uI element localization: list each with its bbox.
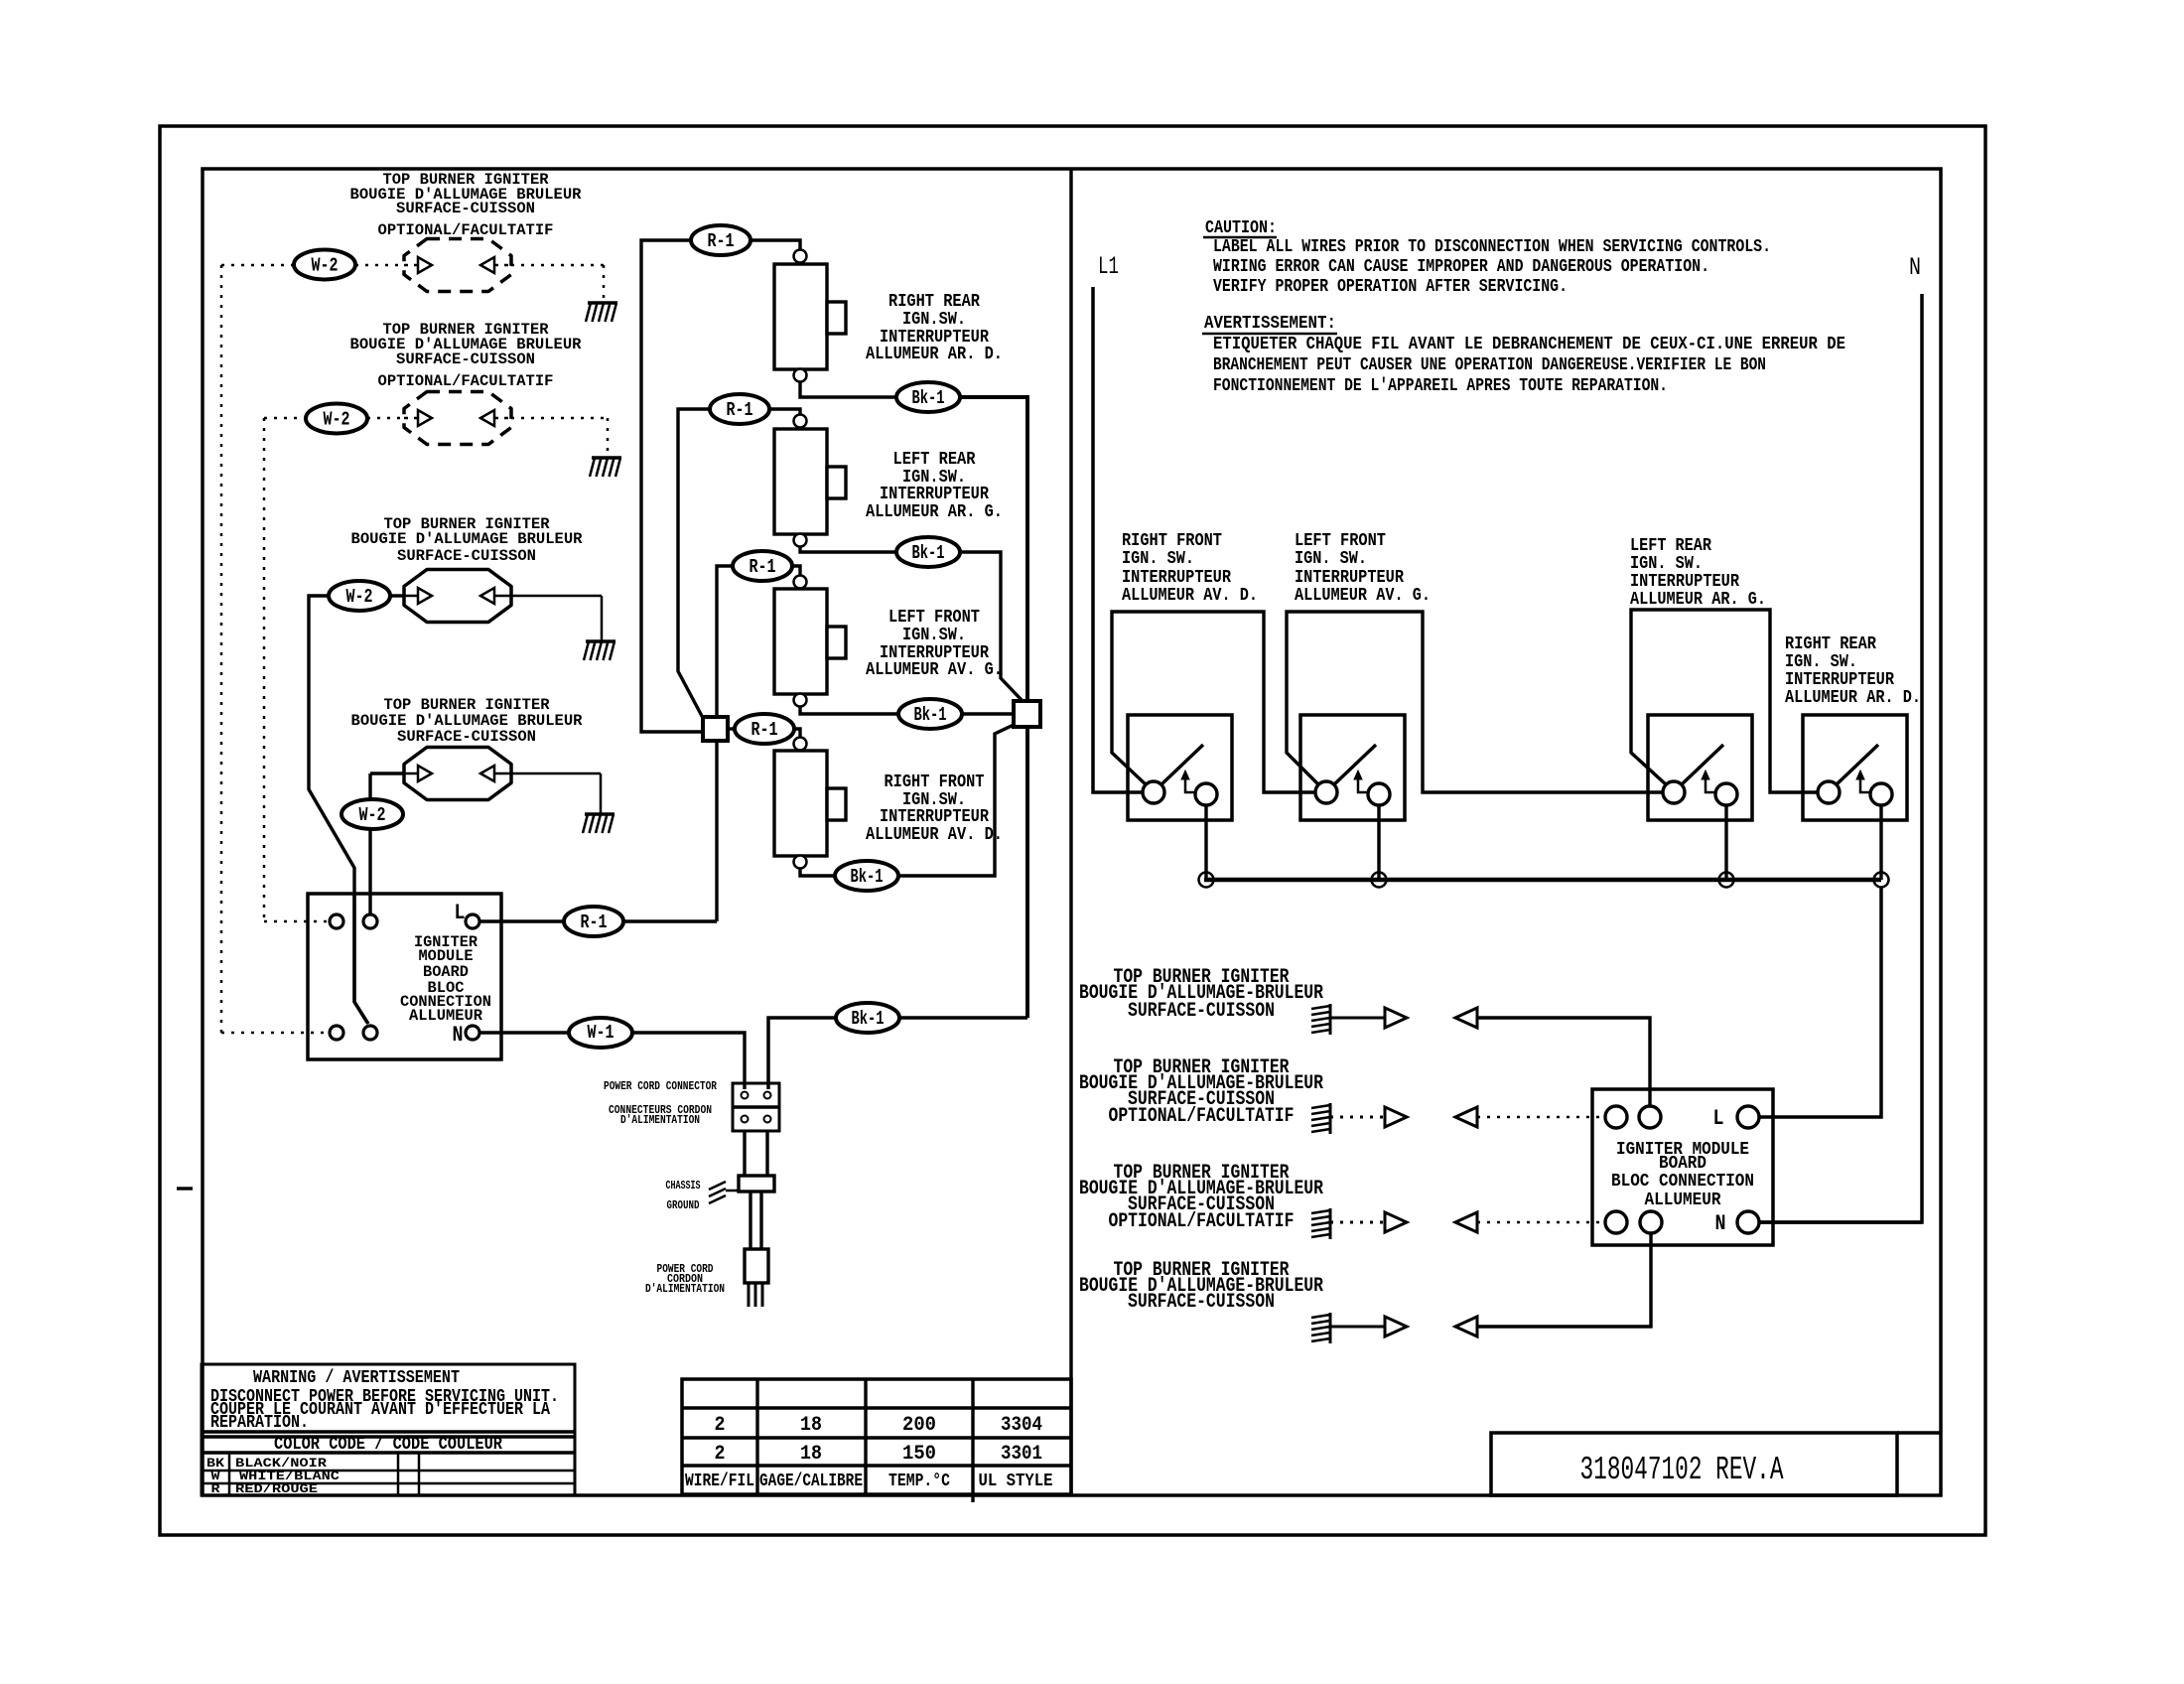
- svg-text:ALLUMEUR AV. G.: ALLUMEUR AV. G.: [866, 660, 1003, 680]
- board terminal D: [363, 1026, 377, 1040]
- arrow out 3: [1385, 1212, 1407, 1232]
- svg-text:LEFT FRONT: LEFT FRONT: [1295, 531, 1386, 551]
- center divider line: [1069, 169, 1072, 1495]
- svg-text:OPTIONAL/FACULTATIF: OPTIONAL/FACULTATIF: [378, 221, 554, 239]
- svg-text:CHASSIS: CHASSIS: [666, 1179, 701, 1193]
- svg-text:L: L: [1713, 1106, 1724, 1131]
- oval label W-2 no.1: [294, 250, 355, 280]
- oval label Bk-1 no.1: [896, 382, 960, 412]
- svg-text:INTERRUPTEUR: INTERRUPTEUR: [880, 485, 989, 504]
- arrow in 1: [1455, 1008, 1477, 1028]
- switch 1 arm: [1161, 745, 1203, 784]
- svg-text:RIGHT FRONT: RIGHT FRONT: [1122, 531, 1222, 551]
- svg-text:OPTIONAL/FACULTATIF: OPTIONAL/FACULTATIF: [378, 372, 554, 390]
- igniter module board box: [308, 894, 501, 1059]
- wire oval to igniter 2 dashed: [367, 417, 404, 420]
- svg-text:18: 18: [800, 1443, 822, 1466]
- svg-text:SURFACE-CUISSON: SURFACE-CUISSON: [397, 547, 536, 565]
- wire switch 4 to Bk-1: [800, 868, 835, 876]
- oval label R-1 no.1: [691, 225, 751, 255]
- svg-text:LEFT FRONT: LEFT FRONT: [888, 608, 980, 628]
- svg-text:OPTIONAL/FACULTATIF: OPTIONAL/FACULTATIF: [1109, 1105, 1295, 1128]
- svg-text:CAUTION:: CAUTION:: [1205, 218, 1277, 238]
- svg-text:ALLUMEUR AR. G.: ALLUMEUR AR. G.: [1630, 590, 1766, 610]
- arrow in 3: [1455, 1212, 1477, 1232]
- arrow out 2: [1385, 1107, 1407, 1127]
- wire switch box 4 to bus: [1879, 805, 1882, 880]
- bus junction 4: [1874, 873, 1889, 888]
- right board terminal 2: [1639, 1106, 1661, 1128]
- wire Bk-1 no.2 drop: [960, 552, 1023, 701]
- wire W-2 no.2 dashed: [264, 417, 306, 420]
- svg-text:R-1: R-1: [581, 912, 608, 933]
- chassis ground symbol: [709, 1182, 726, 1190]
- wire igniter 3 to ground: [511, 595, 602, 598]
- junction square B: [1014, 701, 1040, 727]
- wire igniter 1 to ground: [511, 264, 604, 267]
- svg-text:RIGHT FRONT: RIGHT FRONT: [885, 772, 985, 792]
- wire oval to igniter 3: [390, 594, 404, 597]
- title box: [1491, 1433, 1897, 1495]
- svg-text:TEMP.°C: TEMP.°C: [888, 1472, 950, 1491]
- color code rows: [202, 1470, 575, 1473]
- wire connector down: [743, 1131, 746, 1176]
- plug prongs: [748, 1283, 751, 1307]
- svg-text:WIRE/FIL: WIRE/FIL: [685, 1472, 754, 1491]
- switch 4 arrow: [1860, 778, 1870, 792]
- svg-text:IGN.SW.: IGN.SW.: [902, 310, 966, 330]
- switch 2 top terminal: [794, 415, 807, 428]
- wire arrow 3 to board dashed: [1477, 1221, 1604, 1224]
- board terminal A: [330, 914, 343, 928]
- arrow in 4: [1455, 1317, 1477, 1336]
- svg-text:N: N: [1909, 253, 1921, 282]
- svg-text:INTERRUPTEUR: INTERRUPTEUR: [1630, 572, 1739, 592]
- igniter symbol right 3: [1329, 1208, 1332, 1239]
- board terminal B: [363, 914, 377, 928]
- svg-text:2: 2: [715, 1414, 726, 1437]
- wire W-2 no.1 dashed: [221, 264, 294, 267]
- connector pin 4: [764, 1116, 771, 1123]
- switch box 4 left terminal: [1818, 781, 1840, 803]
- svg-text:RIGHT REAR: RIGHT REAR: [1785, 634, 1876, 654]
- connector pin 3: [742, 1116, 749, 1123]
- board terminal N: [466, 1026, 479, 1040]
- connector pin 1: [742, 1092, 749, 1099]
- table column lines: [755, 1379, 758, 1494]
- left margin tick: [177, 1187, 193, 1190]
- wire R-1 no.3 feed riser: [717, 566, 732, 921]
- svg-text:W-2: W-2: [324, 409, 350, 431]
- svg-text:IGN. SW.: IGN. SW.: [1630, 554, 1703, 574]
- switch box 2 left terminal: [1315, 781, 1337, 803]
- svg-text:WARNING / AVERTISSEMENT: WARNING / AVERTISSEMENT: [253, 1368, 460, 1388]
- svg-text:LABEL ALL WIRES PRIOR TO DISCO: LABEL ALL WIRES PRIOR TO DISCONNECTION W…: [1213, 237, 1771, 257]
- svg-text:200: 200: [902, 1414, 936, 1437]
- wire igniter 2 to ground: [511, 417, 608, 420]
- table row lines: [682, 1406, 1071, 1410]
- arrow out 4: [1385, 1317, 1407, 1336]
- svg-text:D'ALIMENTATION: D'ALIMENTATION: [620, 1113, 700, 1127]
- wire igniter 4 to arrow: [1330, 1326, 1386, 1329]
- oval label W-2 no.3: [329, 581, 390, 611]
- switch 1 top terminal: [794, 250, 807, 263]
- N bus wire: [1759, 294, 1922, 1222]
- svg-text:ALLUMEUR: ALLUMEUR: [409, 1007, 482, 1025]
- oval label Bk-1 no.4: [835, 861, 898, 891]
- wire switch box 3 to bus: [1724, 805, 1727, 880]
- igniter module board right box: [1592, 1089, 1773, 1245]
- wire arrow 1 to board: [1477, 1018, 1650, 1105]
- switch box 3 right terminal: [1715, 783, 1737, 805]
- wire board L to R-1: [480, 919, 564, 922]
- right board terminal N: [1737, 1211, 1759, 1233]
- wire bus to board L: [1759, 888, 1881, 1117]
- svg-text:W-2: W-2: [346, 586, 373, 608]
- svg-text:ALLUMEUR AV. D.: ALLUMEUR AV. D.: [1122, 586, 1258, 606]
- switch box 2 right terminal: [1368, 783, 1390, 805]
- svg-text:WIRING ERROR CAN CAUSE IMPROPE: WIRING ERROR CAN CAUSE IMPROPER AND DANG…: [1213, 257, 1709, 277]
- wire igniter 3 to arrow: [1330, 1221, 1386, 1224]
- ground symbol 3: [586, 639, 615, 643]
- wire Bk-1 no.4 drop: [898, 725, 1014, 876]
- svg-text:LEFT REAR: LEFT REAR: [1630, 536, 1711, 556]
- svg-text:GROUND: GROUND: [667, 1198, 700, 1212]
- power cord cable: [749, 1192, 751, 1249]
- wire W-2 no.4: [368, 773, 371, 913]
- wire Bk-1 no.3 to junction: [962, 712, 1014, 715]
- ignition switch 2 body: [774, 429, 827, 534]
- ignition switch 4 body: [774, 751, 827, 856]
- svg-text:LEFT REAR: LEFT REAR: [893, 450, 976, 470]
- oval label Bk-1 no.2: [896, 537, 960, 567]
- svg-text:ALLUMEUR AV. G.: ALLUMEUR AV. G.: [1295, 586, 1431, 606]
- switch 1 bottom terminal: [794, 369, 807, 382]
- svg-text:W-2: W-2: [312, 255, 339, 277]
- wire R-1 no.1 to switch: [751, 240, 800, 249]
- svg-text:IGN. SW.: IGN. SW.: [1785, 652, 1857, 672]
- switch 3 bottom terminal: [794, 694, 807, 707]
- switch 2 arrow: [1358, 778, 1368, 792]
- switch 2 arm: [1334, 745, 1376, 784]
- svg-text:IGN. SW.: IGN. SW.: [1122, 549, 1194, 569]
- igniter symbol 4 (octagon): [404, 748, 511, 800]
- warning box rules: [202, 1430, 575, 1433]
- switch 4 arm: [1837, 745, 1878, 784]
- board terminal L: [466, 914, 479, 928]
- oval label R-1 no.2: [710, 394, 769, 424]
- svg-text:ALLUMEUR AV. D.: ALLUMEUR AV. D.: [866, 825, 1003, 845]
- svg-text:R: R: [211, 1481, 220, 1496]
- wire R-1 no.2 to switch: [769, 409, 800, 414]
- igniter symbol 2 (octagon): [404, 392, 511, 445]
- svg-text:Bk-1: Bk-1: [914, 704, 947, 726]
- svg-text:INTERRUPTEUR: INTERRUPTEUR: [1295, 568, 1404, 588]
- svg-text:BLOC CONNECTION: BLOC CONNECTION: [1611, 1172, 1754, 1192]
- switch 3 arm: [1682, 745, 1723, 784]
- board terminal C: [330, 1026, 343, 1040]
- igniter symbol right 4: [1329, 1313, 1332, 1343]
- wire loop over box 3: [1631, 610, 1819, 792]
- svg-text:SURFACE-CUISSON: SURFACE-CUISSON: [1128, 1291, 1275, 1314]
- igniter symbol right 1: [1329, 1004, 1332, 1035]
- arrow out 1: [1385, 1008, 1407, 1028]
- wire igniter 2 to arrow: [1330, 1116, 1386, 1119]
- igniter symbol right 2: [1329, 1103, 1332, 1134]
- svg-text:INTERRUPTEUR: INTERRUPTEUR: [880, 807, 989, 827]
- ign switch box 4: [1803, 715, 1907, 820]
- ground symbol 1: [588, 301, 617, 305]
- switch 4 top terminal: [794, 738, 807, 751]
- svg-text:COLOR CODE / CODE COULEUR: COLOR CODE / CODE COULEUR: [274, 1435, 502, 1455]
- switch box 1 right terminal: [1195, 783, 1217, 805]
- outer border frame: [160, 126, 1985, 1535]
- switch 1 arrow: [1185, 778, 1195, 792]
- wire oval to igniter 1 dashed: [355, 264, 404, 267]
- svg-text:SURFACE-CUISSON: SURFACE-CUISSON: [396, 200, 535, 217]
- wire gauge table frame: [682, 1379, 1071, 1494]
- svg-text:GAGE/CALIBRE: GAGE/CALIBRE: [759, 1472, 863, 1491]
- wire Bk-1 bottom right: [899, 1016, 1027, 1020]
- wire igniter 1 to arrow: [1330, 1017, 1386, 1020]
- L1 bus wire: [1093, 287, 1143, 792]
- right board terminal 3: [1605, 1211, 1627, 1233]
- svg-text:Bk-1: Bk-1: [852, 1008, 885, 1030]
- ign switch box 1: [1128, 715, 1232, 820]
- svg-text:BRANCHEMENT PEUT CAUSER UNE OP: BRANCHEMENT PEUT CAUSER UNE OPERATION DA…: [1213, 355, 1766, 375]
- svg-text:W-2: W-2: [359, 804, 386, 826]
- svg-text:L1: L1: [1098, 252, 1119, 281]
- wire W-1 to connector: [632, 1033, 745, 1089]
- svg-text:Bk-1: Bk-1: [912, 542, 945, 564]
- svg-text:SURFACE-CUISSON: SURFACE-CUISSON: [1128, 1000, 1275, 1023]
- bus junction 2: [1372, 873, 1387, 888]
- switch 3 top terminal: [794, 576, 807, 589]
- oval label W-2 no.2: [306, 404, 367, 434]
- bus wire: [1204, 878, 1881, 883]
- bus junction 3: [1719, 873, 1734, 888]
- switch 3 arrow: [1706, 778, 1715, 792]
- board internal wire: [354, 894, 367, 1023]
- svg-text:Bk-1: Bk-1: [851, 866, 884, 888]
- wire Bk-1 bottom left: [768, 1018, 836, 1089]
- svg-text:ALLUMEUR AR. D.: ALLUMEUR AR. D.: [866, 345, 1003, 364]
- svg-text:FONCTIONNEMENT DE L'APPAREIL A: FONCTIONNEMENT DE L'APPAREIL APRES TOUTE…: [1213, 376, 1668, 396]
- svg-text:R-1: R-1: [751, 719, 778, 741]
- ignition switch 1 body: [774, 264, 827, 369]
- igniter symbol 1 (octagon): [404, 239, 511, 292]
- svg-text:VERIFY PROPER OPERATION AFTER: VERIFY PROPER OPERATION AFTER SERVICING.: [1213, 277, 1568, 297]
- svg-text:INTERRUPTEUR: INTERRUPTEUR: [1122, 568, 1231, 588]
- inner diagram frame: [203, 169, 1941, 1495]
- svg-text:OPTIONAL/FACULTATIF: OPTIONAL/FACULTATIF: [1109, 1210, 1295, 1233]
- svg-text:150: 150: [902, 1443, 936, 1466]
- oval label W-1: [569, 1018, 632, 1048]
- oval label R-1 no.4: [735, 714, 794, 744]
- ign switch box 2: [1300, 715, 1405, 820]
- wire R-1 no.1 feed: [641, 240, 703, 732]
- svg-text:ALLUMEUR AR. D.: ALLUMEUR AR. D.: [1785, 688, 1921, 708]
- wire loop over box 2: [1287, 612, 1664, 792]
- svg-text:POWER CORD CONNECTOR: POWER CORD CONNECTOR: [604, 1079, 718, 1093]
- svg-text:IGN. SW.: IGN. SW.: [1295, 549, 1367, 569]
- switch box 1 left terminal: [1143, 781, 1164, 803]
- svg-text:N: N: [1715, 1211, 1726, 1236]
- svg-text:SURFACE-CUISSON: SURFACE-CUISSON: [396, 351, 535, 368]
- svg-text:IGN.SW.: IGN.SW.: [902, 626, 966, 645]
- svg-text:318047102 REV.A: 318047102 REV.A: [1580, 1452, 1784, 1488]
- svg-text:REPARATION.: REPARATION.: [210, 1413, 309, 1433]
- switch 2 bottom terminal: [794, 534, 807, 547]
- right board terminal 1: [1605, 1106, 1627, 1128]
- svg-text:ETIQUETER CHAQUE FIL AVANT LE: ETIQUETER CHAQUE FIL AVANT LE DEBRANCHEM…: [1213, 335, 1845, 354]
- svg-text:ALLUMEUR AR. G.: ALLUMEUR AR. G.: [866, 502, 1003, 522]
- switch box 3 left terminal: [1663, 781, 1685, 803]
- power cord plug: [745, 1249, 768, 1283]
- wire R-1 no.4 feed: [728, 727, 735, 730]
- oval label R-1 module: [564, 907, 623, 936]
- oval label R-1 no.3: [733, 551, 792, 581]
- igniter symbol 3 (octagon): [404, 570, 511, 623]
- svg-text:L: L: [455, 901, 466, 925]
- svg-text:R-1: R-1: [750, 556, 776, 578]
- svg-text:AVERTISSEMENT:: AVERTISSEMENT:: [1204, 314, 1336, 334]
- wire switch box 2 to bus: [1377, 805, 1380, 880]
- svg-text:RED/ROUGE: RED/ROUGE: [235, 1481, 318, 1496]
- wire switch 3 to Bk-1: [800, 706, 898, 714]
- wire arrow 2 to board dashed: [1477, 1116, 1604, 1119]
- svg-text:R-1: R-1: [727, 399, 753, 421]
- wire igniter 4 to ground: [511, 772, 601, 775]
- svg-text:ALLUMEUR: ALLUMEUR: [1645, 1191, 1721, 1210]
- wire arrow 4 to board: [1477, 1234, 1651, 1327]
- ground symbol 4: [585, 812, 614, 816]
- connector pin 2: [764, 1092, 771, 1099]
- svg-text:18: 18: [800, 1414, 822, 1437]
- wire board N to W-1: [480, 1031, 569, 1034]
- svg-text:BOARD: BOARD: [1659, 1154, 1706, 1174]
- wire R-1 no.4 to switch: [794, 729, 800, 737]
- junction square A: [703, 717, 728, 741]
- svg-text:W-1: W-1: [588, 1022, 614, 1044]
- wire R-1 no.2 feed: [678, 409, 709, 718]
- wire loop over box 1: [1112, 612, 1315, 792]
- ground symbol 2: [592, 456, 621, 460]
- power cord connector box: [733, 1083, 779, 1131]
- wire switch 2 to Bk-1: [800, 546, 896, 552]
- svg-text:Bk-1: Bk-1: [912, 387, 945, 409]
- svg-text:N: N: [453, 1023, 464, 1048]
- switch box 4 right terminal: [1870, 783, 1892, 805]
- svg-text:R-1: R-1: [708, 230, 735, 252]
- oval label Bk-1 bottom: [836, 1003, 899, 1033]
- wire board N to bus: [1759, 1220, 1922, 1224]
- oval label Bk-1 no.3: [898, 699, 962, 729]
- right board terminal L: [1737, 1106, 1759, 1128]
- warning box: [202, 1364, 575, 1495]
- wire W-2 no.3: [309, 596, 368, 1024]
- svg-text:UL STYLE: UL STYLE: [979, 1472, 1053, 1491]
- svg-text:3301: 3301: [1001, 1443, 1042, 1466]
- right board terminal 4: [1640, 1211, 1662, 1233]
- ign switch box 3: [1648, 715, 1752, 820]
- wire switch 1 to Bk-1: [800, 381, 896, 397]
- svg-text:3304: 3304: [1001, 1414, 1042, 1437]
- bus junction 1: [1199, 873, 1214, 888]
- svg-text:INTERRUPTEUR: INTERRUPTEUR: [1785, 670, 1894, 690]
- svg-text:RIGHT REAR: RIGHT REAR: [888, 292, 980, 312]
- chassis block: [739, 1176, 774, 1192]
- svg-text:D'ALIMENTATION: D'ALIMENTATION: [645, 1282, 725, 1296]
- wire R-1 no.3 to switch: [792, 566, 800, 575]
- wire switch box 1 to bus: [1204, 805, 1207, 880]
- wire R-1 to riser: [623, 919, 717, 922]
- switch 4 bottom terminal: [794, 856, 807, 869]
- svg-text:BOUGIE D'ALLUMAGE BRULEUR: BOUGIE D'ALLUMAGE BRULEUR: [351, 530, 583, 548]
- svg-text:2: 2: [715, 1443, 726, 1466]
- ignition switch 3 body: [774, 589, 827, 694]
- oval label W-2 no.4: [341, 799, 403, 829]
- wire Bk-1 no.1 riser: [960, 397, 1027, 1018]
- arrow in 2: [1455, 1107, 1477, 1127]
- svg-text:SURFACE-CUISSON: SURFACE-CUISSON: [397, 728, 536, 746]
